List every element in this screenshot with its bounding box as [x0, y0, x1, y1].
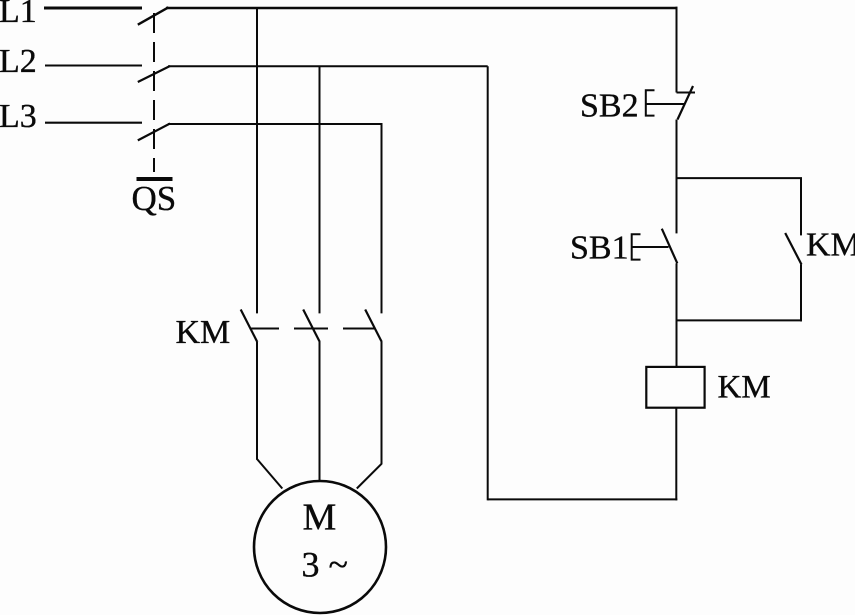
svg-text:L3: L3 — [0, 98, 37, 135]
pushbutton SB2 fixed contact seat — [677, 92, 696, 94]
wire coil bottom drop — [675, 408, 677, 501]
switch QS pole 1 blade — [138, 7, 169, 24]
wire self-hold right rail upper — [800, 178, 802, 235]
svg-text:KM: KM — [806, 227, 855, 264]
wire L2 left — [45, 65, 142, 67]
wire control left rail from L2 — [487, 66, 489, 500]
switch QS pole 2 blade — [138, 66, 170, 82]
wire self-hold branch bottom — [676, 319, 803, 321]
wire control bottom return — [488, 498, 678, 500]
svg-text:M: M — [303, 497, 337, 539]
contactor KM mechanical linkage dash 2 — [294, 328, 328, 330]
contact KM auxiliary blade — [785, 233, 801, 265]
pushbutton SB2 blade — [678, 86, 694, 120]
svg-text:L1: L1 — [0, 0, 37, 30]
contactor coil KM box — [646, 367, 704, 408]
svg-text:KM: KM — [176, 314, 231, 351]
wire motor lead 2 vertical — [319, 342, 321, 482]
pushbutton SB2 plunger link — [646, 103, 684, 105]
switch QS pole 3 blade — [138, 124, 170, 141]
wire motor lead 1 vertical — [256, 342, 258, 460]
svg-text:3 ~: 3 ~ — [302, 545, 348, 585]
wire phase A drop — [256, 8, 258, 313]
wire L3 left — [45, 122, 142, 124]
wire control right rail top — [676, 7, 678, 93]
contactor KM main contact 3 blade — [365, 310, 382, 343]
wire L1 right — [166, 7, 678, 10]
wire motor lead 1 diagonal — [257, 459, 282, 489]
svg-text:SB2: SB2 — [580, 88, 639, 125]
wire L1 left — [44, 7, 142, 10]
wire motor lead 3 diagonal — [357, 464, 382, 489]
pushbutton SB1 plunger link — [632, 246, 669, 248]
pushbutton SB2 actuator bracket — [646, 90, 655, 115]
motor M circle — [254, 481, 386, 613]
switch QS handle bar — [137, 177, 173, 181]
pushbutton SB1 actuator bracket — [632, 234, 641, 259]
wire L2 right — [168, 65, 488, 67]
switch QS linkage dashed line — [153, 13, 155, 172]
svg-text:L2: L2 — [0, 43, 37, 80]
contactor KM main contact 1 blade — [241, 310, 258, 343]
wire phase C drop — [381, 124, 383, 313]
pushbutton SB1 blade — [662, 229, 678, 264]
svg-text:SB1: SB1 — [570, 230, 629, 267]
wire phase B drop — [319, 66, 321, 313]
contactor KM mechanical linkage dash 1 — [251, 328, 279, 330]
wire self-hold branch top — [676, 177, 803, 179]
wire motor lead 3 vertical — [381, 342, 383, 464]
svg-text:KM: KM — [718, 370, 771, 406]
contactor KM main contact 2 blade — [303, 310, 320, 343]
wire L3 right — [168, 123, 383, 125]
contactor KM mechanical linkage dash 3 — [343, 328, 375, 330]
svg-text:QS: QS — [132, 179, 177, 218]
wire self-hold right rail lower — [800, 265, 802, 322]
wire control rail SB1 to coil — [676, 263, 678, 367]
wire control rail SB2 to SB1 — [676, 120, 678, 234]
